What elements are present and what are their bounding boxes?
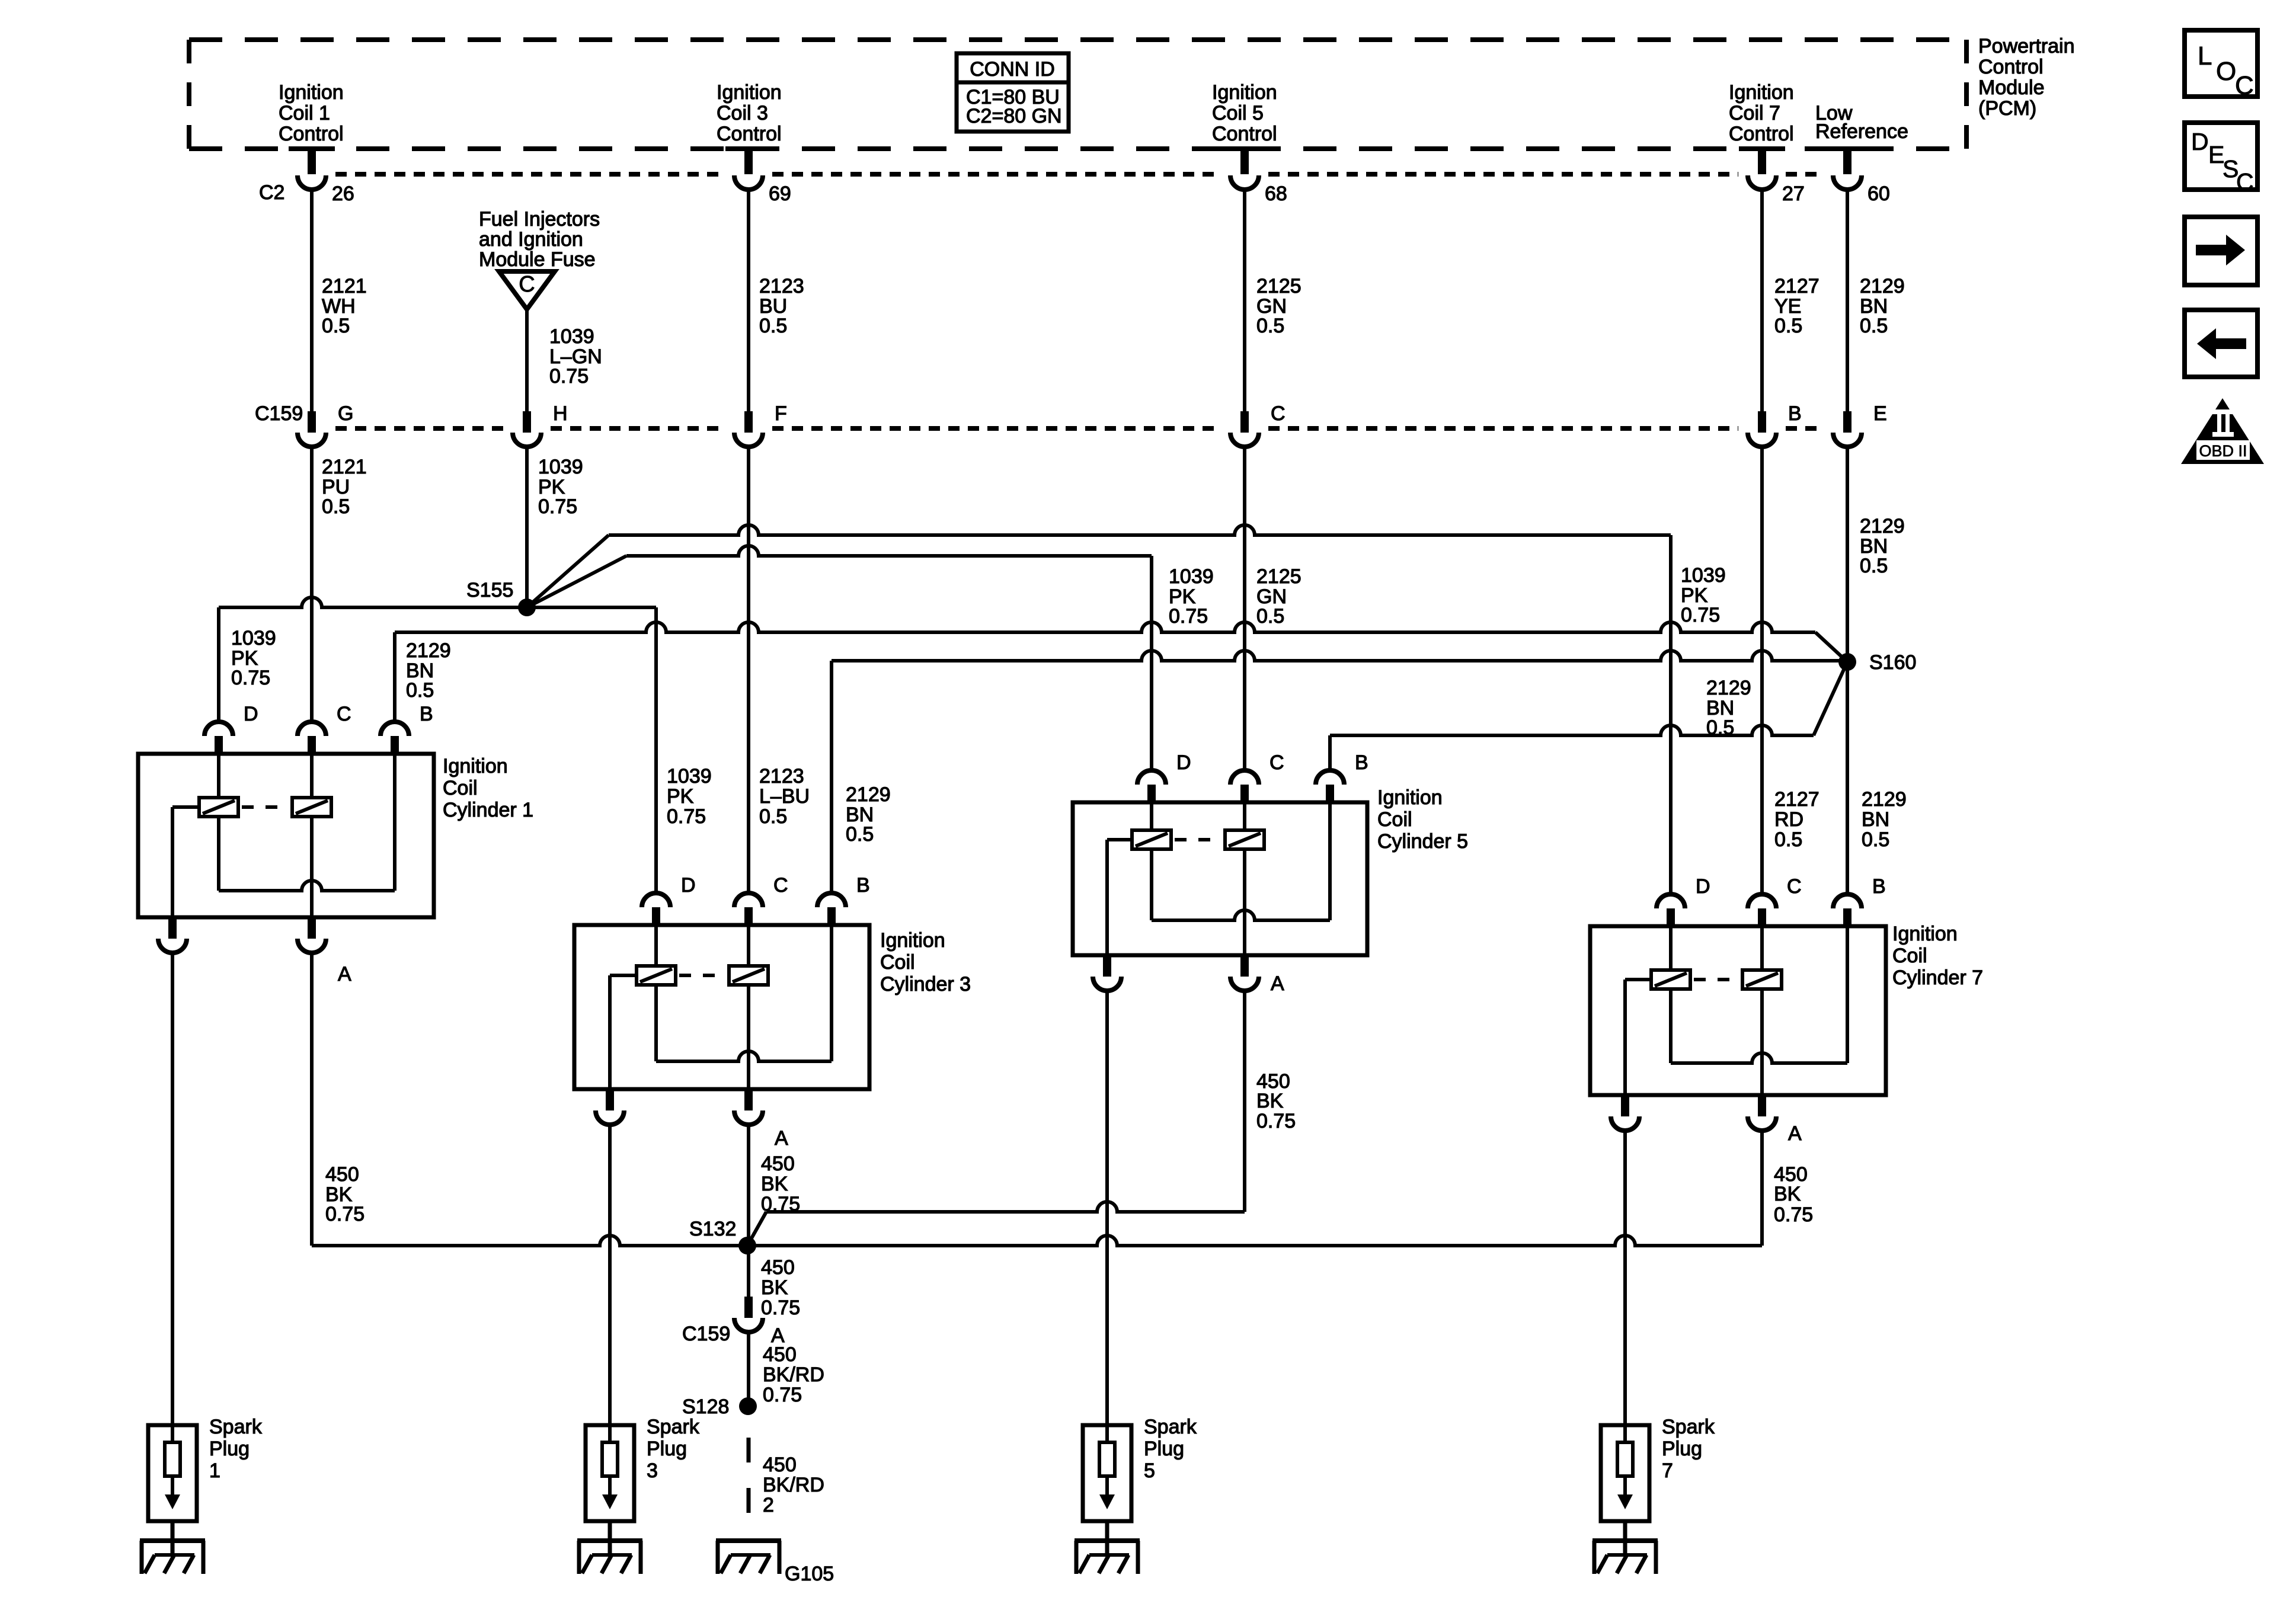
svg-text:2129: 2129	[846, 783, 891, 806]
svg-text:0.75: 0.75	[667, 805, 706, 828]
back arrow box	[2185, 310, 2257, 377]
svg-text:0.5: 0.5	[1860, 555, 1888, 577]
svg-text:Control: Control	[717, 123, 782, 145]
coil 3 pin A terminal	[744, 1089, 753, 1110]
coil 7 internal primary wires	[1669, 926, 1673, 970]
PCM dashed box right edge	[1964, 40, 1969, 149]
svg-text:0.75: 0.75	[231, 667, 270, 689]
wire 450 BK/RD 2 dashed to G105	[747, 1438, 751, 1538]
wire 2123 BU coil3 from pin 69 to C159 F	[747, 191, 750, 411]
svg-text:A: A	[338, 963, 351, 985]
splice S128 junction dot	[739, 1397, 757, 1415]
wire 1039 PK from C159 H to S155	[525, 447, 529, 607]
svg-text:Coil: Coil	[880, 951, 915, 974]
coil 5 pin D terminal	[1137, 770, 1166, 785]
OBD II triangle symbol	[2181, 398, 2264, 464]
spark plug 7 arrow	[1623, 1476, 1627, 1497]
coil 7 primary winding element	[1651, 970, 1690, 989]
svg-text:2129: 2129	[406, 639, 451, 662]
PCM pin 69 stub and terminal	[725, 146, 772, 151]
svg-text:0.75: 0.75	[1256, 1110, 1296, 1132]
svg-text:Coil 5: Coil 5	[1212, 102, 1264, 124]
svg-text:D: D	[244, 703, 258, 725]
svg-text:D: D	[1176, 751, 1191, 774]
wire 1039 L-GN from fuse to C159 H	[525, 309, 529, 411]
wire 450 BK from S132 to C159 A	[747, 1246, 750, 1297]
svg-text:2125: 2125	[1256, 565, 1302, 588]
coil 5 bottom pin to spark plug	[1103, 955, 1111, 977]
svg-text:1039: 1039	[538, 456, 583, 478]
svg-text:2: 2	[763, 1494, 774, 1516]
svg-text:S128: S128	[682, 1396, 729, 1418]
PCM dashed box top edge	[189, 37, 1966, 42]
svg-text:G: G	[338, 402, 353, 425]
ignition coil cylinder 5 box	[1073, 802, 1367, 955]
svg-text:Spark: Spark	[1662, 1416, 1715, 1438]
spark plug 1 arrow	[171, 1476, 174, 1497]
svg-text:B: B	[856, 874, 870, 897]
svg-text:2129: 2129	[1860, 515, 1905, 537]
wire 2127 RD from C159 B to coil7 pin C	[1760, 447, 1764, 896]
svg-text:5: 5	[1144, 1460, 1155, 1482]
wire coil1 secondary to spark plug 1	[171, 953, 174, 1442]
svg-text:Coil: Coil	[1377, 808, 1412, 831]
coil 1 pin A terminal	[308, 917, 316, 939]
C159 pin G stub and terminal	[308, 411, 316, 433]
svg-text:S155: S155	[466, 579, 513, 601]
svg-text:2121: 2121	[322, 456, 367, 478]
PCM dashed box left edge	[187, 40, 191, 149]
svg-text:7: 7	[1662, 1460, 1673, 1482]
svg-text:Ignition: Ignition	[880, 929, 945, 952]
svg-text:C: C	[773, 874, 788, 897]
svg-text:0.5: 0.5	[1862, 828, 1889, 851]
svg-text:A: A	[775, 1127, 788, 1150]
svg-text:0.5: 0.5	[759, 315, 787, 337]
svg-text:OBD II: OBD II	[2199, 442, 2247, 460]
svg-text:B: B	[1355, 751, 1368, 774]
svg-text:Module Fuse: Module Fuse	[479, 248, 596, 271]
coil 7 internal secondary wires	[1760, 926, 1764, 970]
svg-text:26: 26	[332, 183, 354, 205]
coil 5 secondary winding element	[1225, 830, 1264, 849]
svg-text:Control: Control	[279, 123, 344, 145]
spark plug 3 arrow	[608, 1476, 612, 1497]
svg-text:PK: PK	[667, 785, 694, 808]
wire 2121 WH coil1 from pin 26 to C159 G	[310, 191, 314, 411]
svg-text:B: B	[1788, 402, 1802, 425]
svg-text:Control: Control	[1978, 56, 2044, 78]
coil 1 pin D terminal	[204, 722, 233, 736]
svg-text:S160: S160	[1869, 651, 1916, 674]
svg-text:0.75: 0.75	[538, 495, 577, 518]
coil 3 secondary winding element	[729, 966, 768, 985]
wire coil5 secondary to spark plug 5	[1105, 991, 1109, 1442]
splice S160 junction dot	[1838, 653, 1856, 671]
svg-text:C2=80 GN: C2=80 GN	[966, 105, 1062, 127]
coil 5 internal secondary wires	[1243, 802, 1246, 830]
svg-text:C: C	[2236, 168, 2254, 196]
svg-text:69: 69	[769, 183, 791, 205]
coil 7 pin D terminal	[1657, 894, 1685, 908]
ground below spark plug 1	[171, 1521, 175, 1555]
svg-text:C: C	[337, 703, 351, 725]
connector C159 dotted line	[335, 426, 503, 431]
svg-text:Spark: Spark	[209, 1416, 263, 1438]
fuse feed triangle C	[499, 271, 555, 309]
wire 2125 GN from C159 C to coil5 pin C	[1243, 447, 1246, 772]
svg-text:D: D	[2191, 128, 2209, 155]
svg-text:Ignition: Ignition	[717, 81, 782, 104]
svg-text:0.5: 0.5	[1706, 716, 1734, 739]
spark plug 5 arrow	[1105, 1476, 1109, 1497]
svg-text:A: A	[1271, 972, 1284, 995]
svg-text:1039: 1039	[549, 325, 594, 348]
svg-text:450: 450	[325, 1163, 359, 1186]
wire 450 BK coil5 pin A to S132	[1243, 991, 1246, 1212]
svg-text:(PCM): (PCM)	[1978, 97, 2036, 120]
coil 3 internal primary wires	[654, 925, 658, 966]
spark plug 3 box	[586, 1425, 634, 1521]
spark plug 7 box	[1601, 1425, 1649, 1521]
svg-text:0.5: 0.5	[759, 805, 787, 828]
PCM pin 26 stub and terminal	[289, 146, 335, 151]
connector C2 dotted line	[335, 172, 725, 177]
wire S155 diagonal to PK bus lower	[527, 556, 626, 607]
svg-text:Cylinder 1: Cylinder 1	[443, 799, 533, 821]
wire 2129 BN bus from coil5 pin B to S160	[1328, 735, 1332, 772]
svg-text:Powertrain: Powertrain	[1978, 35, 2075, 57]
svg-text:Spark: Spark	[1144, 1416, 1197, 1438]
svg-text:Plug: Plug	[1144, 1438, 1184, 1460]
svg-text:E: E	[1873, 402, 1887, 425]
svg-text:BK: BK	[1256, 1090, 1284, 1112]
coil 7 pin C terminal	[1748, 894, 1776, 908]
svg-text:BK/RD: BK/RD	[763, 1364, 824, 1386]
ground below spark plug 3	[608, 1521, 612, 1555]
wire 1039 PK bus to coil5 pin D	[626, 546, 1152, 556]
svg-text:B: B	[420, 703, 433, 725]
wire 2129 BN low reference from S160 to coil7 pin B	[1846, 662, 1849, 896]
connector C159 A terminal	[744, 1297, 753, 1318]
svg-text:0.5: 0.5	[1774, 828, 1802, 851]
coil 1 primary winding element	[199, 798, 238, 817]
coil 3 primary winding element	[637, 966, 676, 985]
svg-text:L: L	[2198, 41, 2212, 71]
svg-text:0.5: 0.5	[1860, 315, 1888, 337]
svg-text:Plug: Plug	[209, 1438, 250, 1460]
wire coil3 secondary to spark plug 3	[608, 1125, 612, 1442]
svg-text:2123: 2123	[759, 765, 804, 788]
wire 2121 PU from C159 G to coil1 pin C	[310, 447, 314, 724]
wire 2125 GN coil5 from pin 68 to C159 C	[1243, 191, 1246, 411]
svg-text:Reference: Reference	[1815, 120, 1908, 143]
svg-text:2129: 2129	[1706, 677, 1751, 699]
coil 3 pin B terminal	[817, 893, 846, 907]
forward arrow box	[2185, 217, 2257, 285]
svg-text:C159: C159	[255, 402, 303, 425]
svg-text:0.75: 0.75	[763, 1384, 802, 1406]
svg-text:2121: 2121	[322, 275, 367, 297]
wire 2123 L-BU from C159 F to coil3 pin C	[747, 447, 750, 895]
coil 5 pin B terminal	[1316, 770, 1344, 785]
C159 pin B stub and terminal	[1758, 411, 1766, 433]
svg-text:G105: G105	[785, 1563, 834, 1585]
svg-text:F: F	[775, 402, 787, 425]
coil 5 winding link dashes	[1175, 838, 1221, 841]
svg-text:2127: 2127	[1774, 275, 1819, 297]
svg-text:0.75: 0.75	[325, 1203, 364, 1225]
svg-text:450: 450	[763, 1454, 797, 1476]
svg-text:2125: 2125	[1256, 275, 1302, 297]
wire 450 BK coil7 pin A to S132 bus	[1760, 1131, 1764, 1246]
C159 pin C stub and terminal	[1240, 411, 1249, 433]
svg-text:0.75: 0.75	[1681, 604, 1720, 626]
wire 2127 YE coil7 from pin 27 to C159 B	[1760, 191, 1764, 411]
ignition coil cylinder 1 box	[138, 754, 434, 917]
PCM pin 60 stub and terminal	[1824, 146, 1870, 151]
coil 3 pin D terminal	[642, 893, 670, 907]
ignition coil cylinder 3 box	[574, 925, 869, 1089]
svg-text:CONN ID: CONN ID	[970, 58, 1055, 81]
ground below spark plug 7	[1623, 1521, 1627, 1555]
svg-text:Fuel Injectors: Fuel Injectors	[479, 208, 600, 231]
spark plug 1 box	[148, 1425, 197, 1521]
wire 2129 BN low reference from pin 60 to C159 E	[1846, 191, 1849, 411]
coil 7 pin B terminal	[1833, 894, 1862, 908]
splice S132 junction dot	[738, 1237, 756, 1254]
C159 pin H stub and terminal	[523, 411, 531, 433]
svg-text:C159: C159	[682, 1323, 730, 1345]
spark plug 5 box	[1083, 1425, 1131, 1521]
coil 1 bottom pin to spark plug	[168, 917, 177, 939]
svg-text:C: C	[1271, 402, 1285, 425]
svg-text:Module: Module	[1978, 76, 2045, 99]
svg-text:60: 60	[1868, 183, 1890, 205]
svg-text:2129: 2129	[1860, 275, 1905, 297]
coil 7 bottom pin to spark plug	[1621, 1095, 1629, 1116]
DESC legend box	[2185, 123, 2257, 190]
svg-text:1: 1	[209, 1460, 220, 1482]
coil 7 winding link dashes	[1694, 978, 1739, 981]
C159 pin E stub and terminal	[1843, 411, 1851, 433]
svg-text:C2: C2	[259, 181, 284, 204]
svg-text:Plug: Plug	[647, 1438, 687, 1460]
coil 5 primary winding element	[1132, 830, 1171, 849]
svg-text:Control: Control	[1212, 123, 1277, 145]
svg-text:L–BU: L–BU	[759, 785, 810, 808]
svg-text:Cylinder 3: Cylinder 3	[880, 973, 971, 996]
wire 1039 PK bus to coil7 pin D	[609, 525, 1671, 535]
spark plug 1 resistor element	[165, 1442, 180, 1476]
CONN ID table box	[957, 53, 1069, 132]
svg-text:Ignition: Ignition	[279, 81, 344, 104]
coil 3 internal secondary wires	[747, 925, 750, 966]
svg-text:D: D	[1696, 875, 1710, 898]
spark plug 5 resistor element	[1099, 1442, 1115, 1476]
coil 1 winding link dashes	[242, 805, 289, 809]
svg-text:450: 450	[761, 1256, 795, 1279]
svg-text:Coil: Coil	[1892, 945, 1927, 967]
svg-text:0.5: 0.5	[1256, 315, 1284, 337]
svg-text:0.75: 0.75	[1169, 605, 1208, 628]
svg-text:68: 68	[1265, 183, 1287, 205]
splice S155 junction dot	[518, 599, 536, 616]
svg-text:450: 450	[761, 1153, 795, 1175]
svg-text:450: 450	[763, 1343, 797, 1366]
svg-text:C: C	[1787, 875, 1802, 898]
svg-text:1039: 1039	[1681, 564, 1726, 587]
wire 2129 BN bus from coil1 pin B to S160	[393, 632, 396, 724]
wire coil7 secondary to spark plug 7	[1623, 1131, 1627, 1442]
svg-text:C: C	[1269, 751, 1284, 774]
coil 5 internal primary wires	[1150, 802, 1153, 830]
svg-text:0.75: 0.75	[549, 365, 589, 388]
svg-text:Ignition: Ignition	[443, 755, 508, 777]
coil 5 pin C terminal	[1230, 770, 1259, 785]
svg-text:Coil 1: Coil 1	[279, 102, 330, 124]
svg-text:D: D	[681, 874, 696, 897]
svg-text:Ignition: Ignition	[1212, 81, 1277, 104]
coil 1 secondary winding element	[292, 798, 331, 817]
svg-text:BK: BK	[1774, 1183, 1801, 1205]
wire S155 diagonal to PK bus upper	[527, 535, 609, 607]
coil 3 winding link dashes	[679, 974, 725, 977]
svg-text:2123: 2123	[759, 275, 804, 297]
wire 450 BK/RD from C159 A to S128	[747, 1332, 750, 1406]
coil 7 secondary winding element	[1742, 970, 1782, 989]
svg-text:RD: RD	[1774, 808, 1803, 831]
wire 450 BK ground bus S132	[312, 1236, 1762, 1246]
svg-text:BK: BK	[761, 1173, 788, 1195]
wire 450 BK coil3 pin A to S132	[747, 1125, 750, 1246]
svg-text:1039: 1039	[231, 627, 276, 649]
svg-text:O: O	[2216, 57, 2236, 86]
coil 1 internal primary wires	[217, 754, 220, 798]
svg-text:B: B	[1872, 875, 1886, 898]
wire 2129 BN bus from coil3 pin B to S160	[830, 661, 833, 895]
spark plug 7 resistor element	[1617, 1442, 1633, 1476]
spark plug 3 resistor element	[602, 1442, 618, 1476]
svg-text:Spark: Spark	[647, 1416, 700, 1438]
svg-text:Cylinder 5: Cylinder 5	[1377, 830, 1468, 853]
svg-text:Ignition: Ignition	[1377, 786, 1443, 809]
svg-text:0.5: 0.5	[322, 495, 350, 518]
coil 7 pin A terminal	[1758, 1095, 1766, 1116]
coil 1 internal secondary wires	[310, 754, 314, 798]
C159 pin F stub and terminal	[744, 411, 753, 433]
coil 1 pin B terminal	[380, 722, 409, 736]
svg-text:A: A	[1788, 1122, 1802, 1145]
svg-text:S132: S132	[689, 1218, 736, 1240]
svg-text:0.5: 0.5	[846, 823, 874, 846]
svg-text:BK/RD: BK/RD	[763, 1474, 824, 1496]
svg-text:1039: 1039	[1169, 565, 1214, 588]
PCM pin 68 stub and terminal	[1221, 146, 1268, 151]
svg-text:Control: Control	[1729, 123, 1794, 145]
PCM pin 27 stub and terminal	[1739, 146, 1785, 151]
svg-text:3: 3	[647, 1460, 658, 1482]
svg-text:Ignition: Ignition	[1892, 923, 1958, 945]
coil 5 pin A terminal	[1240, 955, 1249, 977]
svg-text:2129: 2129	[1862, 788, 1907, 811]
LOC legend box	[2185, 30, 2257, 97]
wire 450 BK coil1 pin A to S132 bus	[310, 953, 314, 1246]
ignition coil cylinder 7 box	[1590, 926, 1886, 1095]
wire S155 left branch to coil1 pin D	[219, 597, 527, 607]
wire S155 right branch to coil3 pin D	[527, 606, 656, 609]
svg-text:0.5: 0.5	[322, 315, 350, 337]
coil 1 pin C terminal	[298, 722, 326, 736]
svg-text:C: C	[2235, 71, 2254, 100]
svg-text:Plug: Plug	[1662, 1438, 1702, 1460]
svg-text:Coil: Coil	[443, 777, 478, 799]
svg-text:Cylinder 7: Cylinder 7	[1892, 966, 1983, 989]
svg-text:27: 27	[1782, 183, 1805, 205]
svg-text:BK: BK	[761, 1276, 788, 1299]
ground G105	[716, 1538, 781, 1543]
svg-text:C: C	[519, 272, 535, 297]
svg-text:H: H	[553, 402, 568, 425]
coil 3 bottom pin to spark plug	[606, 1089, 614, 1110]
wire 2129 BN low reference from C159 E to S160	[1846, 447, 1849, 662]
svg-text:0.5: 0.5	[406, 679, 434, 702]
svg-text:1039: 1039	[667, 765, 712, 788]
PCM dashed box bottom edge	[189, 146, 1966, 151]
svg-text:BN: BN	[1862, 808, 1889, 831]
svg-text:0.75: 0.75	[1774, 1204, 1813, 1226]
svg-text:Ignition: Ignition	[1729, 81, 1794, 104]
svg-text:0.75: 0.75	[761, 1297, 800, 1319]
svg-text:and Ignition: and Ignition	[479, 228, 583, 251]
svg-text:0.5: 0.5	[1256, 605, 1284, 628]
svg-text:0.5: 0.5	[1774, 315, 1802, 337]
ground below spark plug 5	[1105, 1521, 1109, 1555]
coil 3 pin C terminal	[734, 893, 763, 907]
svg-text:2127: 2127	[1774, 788, 1819, 811]
svg-text:Coil 3: Coil 3	[717, 102, 768, 124]
svg-text:Coil 7: Coil 7	[1729, 102, 1780, 124]
